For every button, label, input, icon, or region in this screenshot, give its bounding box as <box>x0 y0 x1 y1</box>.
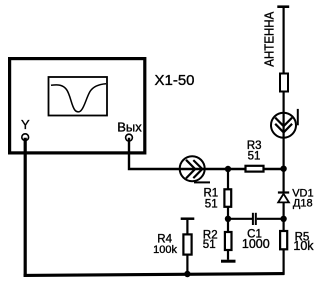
svg-text:X1-50: X1-50 <box>155 72 195 89</box>
wire R2 top lead <box>227 219 229 232</box>
wire R1 bottom lead <box>227 207 229 219</box>
capacitor C1 right plate <box>255 213 257 225</box>
wire R5 bottom lead to bus <box>283 249 285 274</box>
instrument box X1-50 <box>10 59 145 153</box>
wire from Y terminal down to ground bus <box>24 138 27 277</box>
svg-text:Y: Y <box>21 117 30 132</box>
node: junction VD1/R5/C1 <box>280 216 286 222</box>
antenna symbol top bar <box>277 5 289 8</box>
wire R4 top lead <box>186 220 188 235</box>
svg-text:10k: 10k <box>293 239 314 253</box>
wire R2 bottom lead <box>227 250 229 260</box>
wire VD1 anode to junction <box>283 202 285 231</box>
antenna feed wire (vertical) <box>283 7 285 192</box>
ground symbol of R2 <box>221 260 236 263</box>
node: junction of wire and R1 <box>225 166 231 172</box>
coaxial connector XW1 (circle) <box>180 156 205 181</box>
connector XW2 chevron 1 <box>275 118 292 127</box>
resistor R4 <box>183 234 191 254</box>
connector XW1 tangent line (socket mark) <box>194 181 210 183</box>
connector XW1 chevron 2 <box>193 160 202 178</box>
svg-text:51: 51 <box>203 239 216 251</box>
svg-text:51: 51 <box>248 150 261 162</box>
resistor R2 <box>225 232 232 250</box>
capacitor C1 left plate <box>252 213 254 225</box>
svg-text:100k: 100k <box>153 244 177 256</box>
terminal bar above R4 <box>181 217 195 220</box>
screen of instrument <box>49 77 108 116</box>
wire R4 bottom lead <box>186 255 188 275</box>
svg-text:1000: 1000 <box>242 237 270 251</box>
ground bus wire (bottom) <box>24 274 285 276</box>
diode VD1 triangle <box>278 194 289 203</box>
resistor R1 <box>224 189 231 207</box>
wire C1 right lead <box>257 218 284 220</box>
node: junction R1/R2/C1 <box>225 216 231 222</box>
node: junction R4 and ground bus <box>184 271 190 277</box>
svg-text:Д18: Д18 <box>293 198 313 210</box>
connector XW1 chevron 1 <box>186 160 195 179</box>
connector XW2 chevron 2 <box>275 124 292 133</box>
unlabeled resistor on antenna line <box>280 74 288 92</box>
coaxial connector XW2 (circle, antenna input) <box>271 113 296 138</box>
svg-text:51: 51 <box>205 199 218 211</box>
resistor R5 <box>280 231 287 249</box>
response curve (notch) <box>51 84 106 112</box>
terminal Вых <box>126 134 133 141</box>
node: junction of wire and antenna line <box>280 166 286 172</box>
wire middle horizontal (R1/R2 junction to C1 to VD1/R5 junction) <box>228 218 252 220</box>
svg-text:Вых: Вых <box>117 119 142 134</box>
connector XW2 tangent line (socket mark) <box>297 109 299 125</box>
diode VD1 cathode bar <box>278 191 289 193</box>
wire R1 top lead <box>227 169 229 189</box>
svg-text:АНТЕННА: АНТЕННА <box>262 11 276 67</box>
terminal Y <box>22 134 29 141</box>
wire from Вых terminal down and right to connector <box>129 138 284 169</box>
resistor R3 <box>246 166 264 172</box>
